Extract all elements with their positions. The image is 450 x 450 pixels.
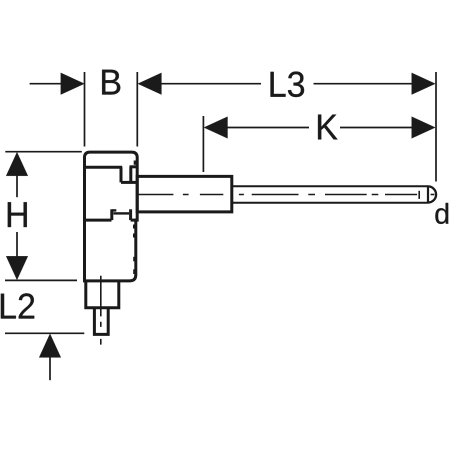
stem below block <box>94 308 108 335</box>
dimension K: left segment <box>225 127 309 129</box>
mid horizontal y=213.3 <box>114 212 130 214</box>
vertical center line (dash-dot) of stem <box>100 276 102 345</box>
thin shaft bottom edge <box>232 202 428 204</box>
dimension B: left arrowhead <box>61 73 85 95</box>
shaft rounded tip arc <box>428 186 436 202</box>
extension line x=137.3 (body right / B right, L3 left) <box>136 72 138 147</box>
slot left edge x=130.8 <box>129 167 132 183</box>
label H <box>8 202 27 227</box>
small dash on right edge above slot <box>134 161 136 165</box>
dimension L2: bottom arrowhead (pointing up) <box>39 334 61 358</box>
mid split line right part <box>131 219 138 222</box>
dimension L3: right arrowhead <box>412 73 436 95</box>
label L3 <box>271 72 305 98</box>
extension line x=84.5 (body left / B left) <box>84 72 86 147</box>
label B <box>102 70 120 95</box>
dimension K: left arrowhead <box>204 117 228 139</box>
hidden dash x=134.5 lower <box>133 234 135 238</box>
left pin vertical x=111.8 <box>110 209 113 220</box>
left pin top tick <box>112 209 117 211</box>
dimension L2: tail line <box>49 355 51 380</box>
dimension K: right segment <box>340 127 414 129</box>
center line tick near tip <box>418 191 420 199</box>
cap bottom edge <box>85 166 123 169</box>
extension line y=151.7 (body top / H top) <box>5 151 82 153</box>
thin shaft top edge <box>232 185 428 187</box>
dimension H: lower segment <box>16 232 18 259</box>
medium block below body <box>86 281 119 308</box>
hidden dash x=134.5 upper <box>133 225 135 229</box>
collar (wide shaft section) <box>137 176 232 212</box>
dimension L3: left arrowhead (shared with B right) <box>138 73 162 95</box>
label L2 <box>1 293 34 318</box>
dimension B: tail line <box>30 83 63 85</box>
dimension L3: left segment <box>159 83 261 85</box>
notch vertical x=121 <box>120 167 123 182</box>
dimension H: bottom arrowhead <box>6 256 28 280</box>
slot top edge <box>130 165 138 168</box>
body outline (cap + main body, rounded top corners, rounded bottom-right) <box>85 152 138 281</box>
right pin vertical x=129.8 <box>129 209 132 220</box>
dimension H: upper segment <box>16 174 18 198</box>
hidden dash x=134.4 near y=259 <box>133 257 135 262</box>
shaft end vertical line <box>427 186 429 203</box>
label d <box>435 203 448 224</box>
extension line x=436 (shaft tip, L3/K right) <box>435 72 437 182</box>
label K <box>318 115 338 140</box>
center line end dash <box>431 194 435 196</box>
dimension K: right arrowhead <box>412 117 436 139</box>
dimension L3: right segment <box>314 83 415 85</box>
extension line x=203.4 (K left) <box>202 116 204 172</box>
hidden dash x=134.4 near y=271 <box>133 269 135 274</box>
extension line y=333.3 (stem bottom / L2 bottom) <box>5 332 84 334</box>
extension line y=280.4 (body bottom / H bottom, L2 top) <box>5 279 77 281</box>
mid split line left part y=220.4 <box>85 219 112 222</box>
horizontal center line (dash-dot) of shaft <box>138 194 418 196</box>
dimension H: top arrowhead <box>6 152 28 176</box>
notch bottom edge y=182.4 <box>121 181 136 184</box>
